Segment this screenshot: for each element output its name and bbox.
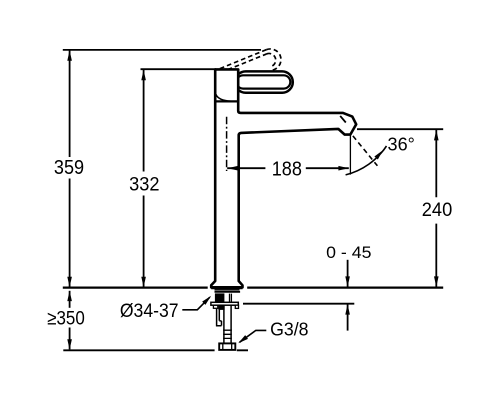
svg-text:240: 240 bbox=[422, 200, 453, 221]
dashed raised lever outer top edge bbox=[220, 50, 266, 69]
dimension 0-45 arrows bbox=[347, 260, 349, 287]
lever inner loop bbox=[237, 75, 291, 88]
36 degree dashed flow line bbox=[353, 136, 378, 166]
svg-text:332: 332 bbox=[129, 174, 159, 196]
dimension 188 line bbox=[227, 167, 349, 169]
nut facet lines bbox=[223, 343, 232, 349]
dashed raised lever inner cap bbox=[267, 53, 276, 66]
extension line top (raised handle height ref) bbox=[63, 49, 261, 51]
36 degree arc bbox=[346, 146, 387, 175]
svg-text:36°: 36° bbox=[388, 135, 415, 155]
shank rod lines above flange bbox=[230, 294, 232, 303]
counter top line bbox=[63, 286, 443, 288]
extension line 332 top ref bbox=[141, 68, 217, 70]
svg-text:G3/8: G3/8 bbox=[270, 319, 308, 340]
svg-text:Ø34-37: Ø34-37 bbox=[120, 301, 179, 322]
spout tip crease bbox=[340, 116, 346, 123]
svg-text:≥350: ≥350 bbox=[47, 308, 85, 330]
dimension 240 line bbox=[435, 130, 437, 287]
faucet body + spout outline bbox=[211, 69, 356, 287]
connector nut G3/8 bbox=[219, 343, 235, 350]
svg-text:359: 359 bbox=[54, 157, 84, 179]
clamp top block bbox=[219, 305, 224, 309]
body centerline (dash-dot) bbox=[226, 117, 228, 171]
dashed raised lever inner top edge bbox=[228, 54, 267, 70]
left tab under flange bbox=[213, 305, 217, 308]
dimension >=350 arrows bbox=[69, 291, 71, 308]
dimension 332 line bbox=[143, 70, 145, 287]
base plate bottom slab bbox=[211, 286, 242, 289]
dashed raised lever outer cap bbox=[266, 49, 281, 72]
leader G3/8 bbox=[240, 330, 267, 342]
clamp bracket bbox=[216, 309, 222, 326]
spout outlet extension line bbox=[357, 128, 443, 130]
supply shank bbox=[224, 305, 231, 343]
lever outer loop bbox=[235, 71, 293, 92]
shoulder fillet arc bbox=[216, 94, 231, 101]
36 degree arc arrowhead bbox=[374, 149, 384, 160]
gasket lines under base bbox=[215, 289, 240, 291]
black spacer block bbox=[215, 293, 225, 302]
mounting flange plate bbox=[211, 302, 238, 305]
bottom extension line (>=350) bbox=[63, 349, 248, 351]
leader diameter 34-37 bbox=[182, 297, 210, 310]
svg-text:0 - 45: 0 - 45 bbox=[326, 244, 371, 262]
counter bottom line bbox=[243, 303, 354, 305]
spout tip vertical extension bbox=[349, 133, 351, 175]
right tab under flange bbox=[235, 305, 238, 308]
dimension 359 line bbox=[69, 50, 71, 287]
svg-text:188: 188 bbox=[272, 158, 302, 180]
collar line under cartridge bbox=[215, 100, 238, 102]
shank ring lines bbox=[223, 330, 232, 338]
